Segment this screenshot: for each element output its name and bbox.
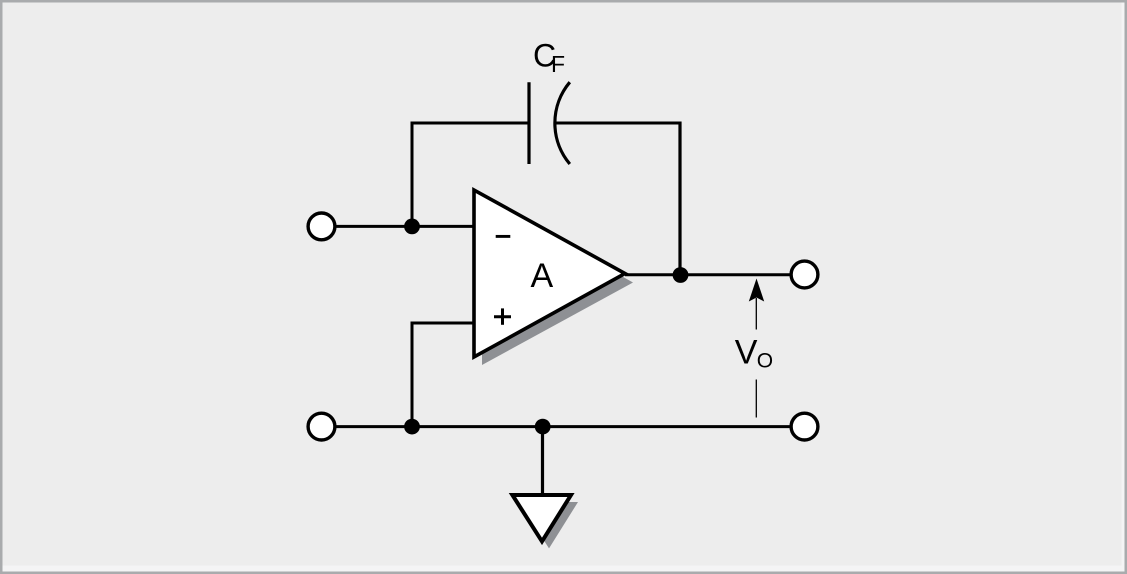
wire: non-inverting input from bottom rail — [412, 323, 474, 427]
node: bottom rail left junction — [404, 419, 420, 435]
VO arrowhead pointing at output wire — [749, 279, 764, 302]
wire: feedback vertical riser at x=412 — [411, 122, 414, 227]
wire: ground stem — [541, 427, 544, 495]
wire: bottom rail — [334, 425, 792, 428]
op-amp minus input marking — [496, 235, 511, 238]
capacitor CF: curved right plate — [555, 82, 570, 164]
node: output junction — [673, 267, 689, 283]
wire: op-amp output to output node — [625, 273, 680, 276]
ground symbol shadow — [519, 502, 578, 548]
wire: feedback right vertical drop to output node — [678, 122, 681, 276]
wire: top rail from input terminal to op-amp inverting input — [334, 225, 474, 228]
svg-text:V: V — [735, 334, 758, 372]
svg-text:O: O — [757, 350, 773, 373]
wire: feedback top horizontal, right of capacitor — [555, 122, 682, 125]
op-amp A shadow — [482, 198, 633, 365]
node: inverting input junction — [404, 219, 420, 235]
svg-text:F: F — [551, 51, 565, 77]
terminal: bottom left open circle — [308, 413, 335, 440]
wire: feedback top horizontal, left of capacitor — [411, 122, 530, 125]
VO arrow upper shaft — [755, 298, 757, 330]
op-amp U1 (A) body — [474, 190, 625, 357]
ground symbol — [512, 495, 571, 541]
VO arrow lower shaft — [755, 380, 757, 418]
svg-text:A: A — [531, 257, 554, 295]
node: bottom rail ground junction — [535, 419, 551, 435]
terminal: bottom right open circle — [791, 413, 818, 440]
terminal: input (top left) open circle — [308, 213, 335, 240]
terminal: output (top right) open circle — [791, 261, 818, 288]
capacitor CF: left plate — [527, 82, 530, 164]
wire: output node to output terminal — [680, 273, 792, 276]
op-amp plus input marking — [494, 315, 511, 318]
